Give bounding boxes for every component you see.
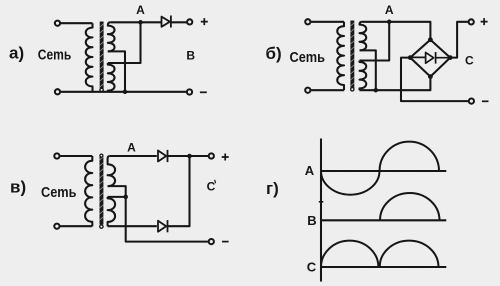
baseline A (321, 170, 446, 172)
waveform B hump (380, 193, 440, 220)
scan background texture (0, 0, 1, 1)
apostrophe mark c (215, 180, 216, 183)
svg-text:С: С (207, 180, 216, 194)
plus sign b (481, 18, 488, 25)
wire tap jog a (108, 51, 125, 91)
secondary winding lower a (108, 63, 115, 92)
waveform C hump 2 (380, 241, 439, 267)
svg-text:В: В (307, 213, 316, 228)
wire primary top c (60, 155, 92, 157)
junction dot tap c (123, 195, 128, 200)
waveform A sine (321, 142, 439, 195)
svg-text:г): г) (266, 179, 279, 198)
junction dot bottom rail a (123, 90, 128, 95)
plus sign a (201, 18, 208, 25)
wire secondary top rail to bridge b (362, 22, 431, 40)
terminal bottom-left c (54, 224, 59, 229)
bridge corner dot left b (408, 55, 413, 60)
secondary winding lower b (360, 61, 367, 91)
svg-text:Сеmь: Сеmь (38, 46, 72, 63)
svg-text:А: А (385, 3, 394, 17)
diode VD2 c (158, 220, 168, 232)
svg-text:А: А (127, 140, 136, 154)
bridge corner dot top b (428, 37, 433, 42)
svg-text:С: С (465, 54, 474, 68)
wire tap c (108, 186, 126, 197)
minus sign c (222, 241, 229, 243)
diode VD1 a (162, 16, 171, 28)
wire node A to lower winding a (108, 22, 141, 63)
terminal minus b (469, 99, 474, 104)
svg-text:А: А (136, 3, 145, 17)
wire node A to lower winding b (360, 22, 390, 61)
primary winding T1c (85, 156, 92, 226)
wire secondary top rail c (110, 155, 157, 157)
terminal plus c (209, 153, 214, 158)
terminal plus b (469, 19, 474, 24)
wire secondary bottom rail to bridge b (360, 77, 431, 91)
waveform vertical axis (320, 139, 322, 282)
core T1b (350, 21, 354, 89)
primary winding T1b (337, 22, 344, 90)
wire diode1 to plus c (168, 155, 209, 157)
terminal top-left b (305, 19, 310, 24)
wire minus output b (401, 58, 468, 102)
wire secondary top rail a (110, 21, 161, 23)
node A dot b (387, 20, 392, 25)
terminal plus a (187, 19, 192, 24)
terminal bottom-left a (55, 89, 60, 94)
wire primary top a (61, 22, 93, 24)
svg-text:В: В (186, 49, 195, 63)
plus sign c (222, 154, 229, 161)
terminal minus a (187, 89, 192, 94)
svg-text:А: А (305, 163, 315, 178)
wire bottom rail a (61, 91, 186, 93)
svg-text:в): в) (10, 178, 26, 197)
wire tap jog b (360, 50, 376, 90)
wire plus output b (450, 22, 468, 58)
bridge corner dot right b (448, 55, 453, 60)
junction dot plus c (187, 154, 192, 159)
secondary winding upper c (108, 156, 116, 186)
svg-text:а): а) (9, 44, 24, 63)
terminal top-left a (55, 21, 60, 26)
svg-text:Сеmь: Сеmь (41, 184, 77, 201)
svg-text:Сеmь: Сеmь (290, 49, 326, 66)
svg-text:С: С (307, 260, 317, 275)
junction dot secondary bottom b (374, 88, 379, 93)
terminal minus c (209, 239, 214, 244)
minus sign b (482, 100, 489, 102)
terminal top-left c (54, 153, 59, 158)
svg-text:б): б) (266, 44, 282, 63)
wire primary bottom c (60, 225, 92, 227)
wire diode to plus a (171, 21, 187, 23)
waveform C hump 1 (321, 241, 378, 267)
core T1a (100, 22, 104, 89)
wire primary top b (311, 21, 344, 23)
terminal bottom-left b (305, 88, 310, 93)
secondary winding upper a (108, 22, 115, 51)
baseline C (321, 266, 446, 268)
node A dot a (138, 20, 143, 25)
bridge internal diode b (410, 52, 450, 64)
bridge corner dot bottom b (428, 74, 433, 79)
axis tick mark (319, 201, 324, 203)
diode VD1 c (158, 150, 168, 162)
secondary winding lower c (108, 197, 116, 226)
core T1c (100, 155, 104, 225)
baseline B (321, 219, 446, 221)
wire primary bottom b (311, 89, 344, 91)
bridge rectifier diamond b (410, 40, 450, 77)
wire tap to minus rail c (126, 197, 209, 242)
minus sign a (200, 91, 207, 93)
wire lower diode rail c (108, 225, 157, 227)
wire diode2 to plus junction c (168, 156, 190, 226)
secondary winding upper b (360, 22, 367, 51)
primary winding T1a (86, 23, 93, 92)
